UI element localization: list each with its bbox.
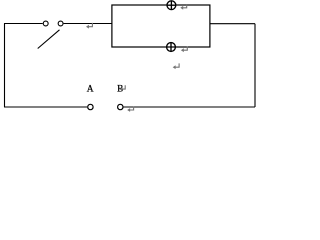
svg-text:A: A — [87, 84, 94, 94]
